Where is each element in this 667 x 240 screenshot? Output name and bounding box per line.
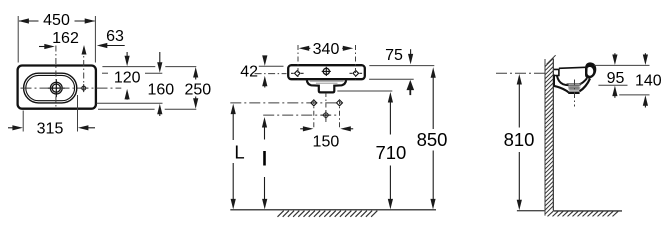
svg-text:340: 340 [313,41,340,58]
svg-text:63: 63 [106,28,124,45]
svg-text:250: 250 [184,81,211,98]
svg-text:162: 162 [52,30,79,47]
svg-text:160: 160 [147,81,174,98]
svg-text:95: 95 [607,70,625,87]
svg-text:710: 710 [375,142,406,163]
svg-text:315: 315 [37,120,64,137]
svg-text:75: 75 [385,47,403,64]
svg-text:120: 120 [114,70,141,87]
svg-text:140: 140 [635,73,662,90]
svg-text:150: 150 [313,134,340,151]
svg-text:L: L [234,142,244,163]
svg-text:850: 850 [417,129,448,150]
svg-text:450: 450 [43,12,70,29]
svg-text:810: 810 [504,129,535,150]
svg-text:42: 42 [240,63,258,80]
